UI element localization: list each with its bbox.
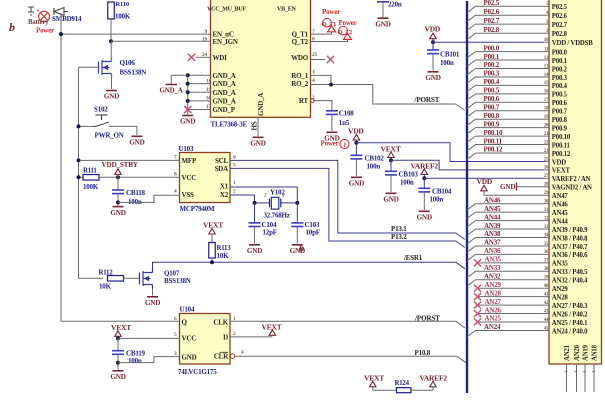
svg-text:7: 7 <box>174 155 177 161</box>
svg-text:P00.8: P00.8 <box>484 112 500 120</box>
svg-text:R111: R111 <box>83 168 97 175</box>
wire line A down to U104 Q <box>61 34 180 321</box>
svg-text:R113: R113 <box>217 245 232 252</box>
bus entry P00.1 <box>467 60 476 66</box>
svg-text:BSS138N: BSS138N <box>120 69 147 77</box>
bus entry P00.9 <box>467 128 476 134</box>
bus entry P00.0 <box>467 52 476 58</box>
bus entry P00.7 <box>467 111 476 117</box>
svg-text:VAGND2 / AN: VAGND2 / AN <box>552 185 592 192</box>
wire line B <box>79 67 104 278</box>
svg-text:P00.2: P00.2 <box>484 61 500 69</box>
svg-text:X1: X1 <box>220 183 229 191</box>
bus entry AN39 <box>467 229 476 235</box>
svg-text:AN37: AN37 <box>484 239 501 247</box>
svg-text:P00.11: P00.11 <box>552 142 571 149</box>
svg-text:Power: Power <box>36 27 54 35</box>
svg-text:37: 37 <box>544 259 549 264</box>
wire /ESR1 <box>153 262 456 269</box>
svg-text:GND: GND <box>182 354 197 362</box>
svg-text:HS: HS <box>251 121 259 130</box>
svg-text:39: 39 <box>544 276 549 281</box>
svg-text:40: 40 <box>544 284 549 289</box>
svg-text:AN32 / P40.4: AN32 / P40.4 <box>552 278 588 285</box>
svg-text:10pF: 10pF <box>306 228 320 236</box>
ground Q106 <box>106 90 117 92</box>
svg-text:CLR: CLR <box>214 352 229 360</box>
svg-text:25: 25 <box>544 157 549 162</box>
wire P00.10 <box>476 135 545 137</box>
svg-text:8: 8 <box>174 172 177 178</box>
wire MFP <box>79 159 180 161</box>
svg-text:/PORST: /PORST <box>414 314 440 322</box>
svg-text:2: 2 <box>264 193 267 199</box>
bus entry AN32 <box>467 280 476 286</box>
pin 35 AN37 / P40.7 <box>544 245 549 247</box>
svg-text:20: 20 <box>544 123 549 128</box>
wire VAREF2 to IC pin <box>424 177 544 179</box>
svg-text:CB118: CB118 <box>126 189 146 197</box>
pin 13 P00.2 <box>544 68 549 70</box>
svg-text:5: 5 <box>174 332 177 338</box>
wire AN46 <box>476 203 545 205</box>
bus entry AN24 <box>467 330 476 336</box>
svg-text:P00.5: P00.5 <box>552 92 568 99</box>
pin CLR bubble <box>230 354 235 359</box>
svg-text:1: 1 <box>343 143 346 149</box>
svg-text:AN33: AN33 <box>484 264 501 272</box>
svg-text:12: 12 <box>544 56 549 61</box>
ground GND_A ladder <box>187 111 189 115</box>
svg-text:27: 27 <box>544 174 549 179</box>
svg-text:GND_A: GND_A <box>213 98 236 106</box>
svg-text:13: 13 <box>544 64 549 69</box>
wire AN35 no-connect <box>478 262 545 264</box>
bus entry AN46 <box>467 204 476 210</box>
pin 45 AN24 / P40.0 <box>544 329 549 331</box>
svg-text:38: 38 <box>544 267 549 272</box>
svg-text:28: 28 <box>544 183 549 188</box>
pin 5 P02.5 <box>544 5 549 7</box>
svg-text:VSS: VSS <box>182 191 195 199</box>
bus entry /PORST bottom <box>456 321 465 328</box>
svg-text:AN37 / P40.7: AN37 / P40.7 <box>552 244 588 251</box>
svg-text:VEXT: VEXT <box>552 168 571 175</box>
wire P00.3 <box>476 76 545 78</box>
svg-text:Power: Power <box>322 8 340 16</box>
ground CB102 <box>351 176 362 178</box>
svg-text:42: 42 <box>544 301 549 306</box>
bus entry P00.12 <box>467 153 476 159</box>
svg-text:VDD: VDD <box>552 159 566 166</box>
svg-text:AN46: AN46 <box>484 196 501 204</box>
svg-text:GND_A: GND_A <box>257 93 265 116</box>
svg-text:P02.8: P02.8 <box>552 31 568 38</box>
wire P02.5 <box>476 5 545 7</box>
capacitor CB119 100n <box>117 338 119 350</box>
pin AN2x bottom stub 0 <box>566 364 568 392</box>
wire VDD to IC pin VDD <box>356 143 544 162</box>
wire P00.8 <box>476 118 545 120</box>
ground CB101 <box>428 71 439 73</box>
battery BT1 <box>28 7 34 15</box>
wire EN_uC net <box>61 13 211 34</box>
wire P00.5 <box>476 93 545 95</box>
wire P02.6 <box>476 14 545 16</box>
svg-text:GND: GND <box>104 93 119 101</box>
wire GND_A ladder <box>187 75 189 110</box>
pin 39 AN32 / P40.4 <box>544 279 549 281</box>
svg-text:GND_A: GND_A <box>213 72 236 80</box>
wire P00.1 <box>476 59 545 61</box>
pin 43 AN26 / P40.2 <box>544 313 549 315</box>
svg-text:VEXT: VEXT <box>111 323 131 332</box>
svg-text:41: 41 <box>544 292 549 297</box>
svg-text:GND_A: GND_A <box>213 80 236 88</box>
wire VDD to VDD/VDDSB pin <box>433 41 544 43</box>
pin 30 AN46 <box>544 203 549 205</box>
svg-text:100n: 100n <box>440 59 454 67</box>
svg-text:GND: GND <box>425 74 440 82</box>
wire SCL to P13.1 <box>230 160 456 233</box>
svg-text:CB104: CB104 <box>432 187 452 195</box>
svg-text:220n: 220n <box>388 1 402 9</box>
svg-text:VDD: VDD <box>425 25 441 34</box>
bus entry P02.7 <box>467 24 476 30</box>
wire S102 left <box>79 125 95 127</box>
svg-text:VEXT: VEXT <box>203 220 223 229</box>
svg-text:VCC_MU_BUF: VCC_MU_BUF <box>207 7 247 13</box>
bus entry P00.11 <box>467 145 476 151</box>
svg-text:VCC: VCC <box>182 334 197 342</box>
svg-text:10K: 10K <box>217 252 230 260</box>
pin AN2x bottom stub 3 <box>593 364 595 392</box>
svg-text:33: 33 <box>544 225 549 230</box>
svg-text:2: 2 <box>233 331 236 337</box>
bus entry AN38 <box>467 238 476 244</box>
ground Q107 <box>147 296 158 298</box>
svg-text:6: 6 <box>233 155 236 161</box>
svg-text:AN29: AN29 <box>552 286 569 293</box>
svg-text:R110: R110 <box>116 1 130 8</box>
wire Q106 source to ground <box>111 74 113 90</box>
svg-text:4: 4 <box>312 78 315 84</box>
wire P00.6 <box>476 101 545 103</box>
svg-text:P02.5: P02.5 <box>484 0 500 7</box>
wire AN24 <box>476 329 545 331</box>
wire CLR to P10.8 <box>235 355 457 357</box>
pin 22 P00.11 <box>544 144 549 146</box>
pin 25 VDD <box>544 160 549 162</box>
svg-text:RO_1: RO_1 <box>291 72 308 80</box>
svg-text:AN35: AN35 <box>485 256 502 264</box>
wire Q107 source to ground <box>152 289 154 296</box>
diode D1 SMBD914 <box>54 8 68 16</box>
svg-text:31: 31 <box>544 208 549 213</box>
svg-text:P00.7: P00.7 <box>484 103 500 111</box>
pin 38 AN33 / P40.5 <box>544 270 549 272</box>
svg-text:EN_IGN: EN_IGN <box>213 38 238 46</box>
resistor R110 100K <box>108 2 115 19</box>
pin 27 VAREF2 / AN <box>544 177 549 179</box>
svg-text:AN44: AN44 <box>484 213 501 221</box>
svg-text:CB101: CB101 <box>440 51 460 59</box>
wire P00.7 <box>476 110 545 112</box>
svg-text:U104: U104 <box>180 306 195 314</box>
svg-text:12pF: 12pF <box>263 228 277 236</box>
pin 16 P00.5 <box>544 93 549 95</box>
bus entry P00.2 <box>467 69 476 75</box>
pin 29 AN47 <box>544 194 549 196</box>
svg-text:30: 30 <box>544 200 549 205</box>
wire P00.11 <box>476 144 545 146</box>
svg-text:GND: GND <box>110 209 125 217</box>
no-ERC cross AN29 <box>474 285 481 292</box>
svg-text:P00.2: P00.2 <box>552 66 568 73</box>
bus entry P00.8 <box>467 119 476 125</box>
bus entry P00.5 <box>467 94 476 100</box>
svg-text:P00.3: P00.3 <box>552 75 568 82</box>
capacitor C? 220n <box>382 0 384 2</box>
svg-text:AN24: AN24 <box>484 323 501 331</box>
svg-text:P00.4: P00.4 <box>552 83 568 90</box>
pin 28 VAGND2 / AN <box>544 186 549 188</box>
pin 17 P00.6 <box>544 101 549 103</box>
svg-text:GND_A: GND_A <box>213 89 236 97</box>
svg-text:GND: GND <box>349 180 364 188</box>
svg-text:32: 32 <box>544 216 549 221</box>
svg-text:4: 4 <box>174 189 177 195</box>
svg-text:GND: GND <box>417 214 432 222</box>
pin 20 P00.9 <box>544 127 549 129</box>
svg-text:AN46: AN46 <box>552 202 569 209</box>
svg-text:100n: 100n <box>400 178 414 186</box>
pin 18 P00.7 <box>544 110 549 112</box>
bus entry /PORST <box>456 104 465 111</box>
ground S102 <box>131 135 142 137</box>
no-ERC cross on GND_P <box>184 106 191 113</box>
pin WDO stub with no-ERC <box>311 59 326 61</box>
wire EN_IGN net <box>111 40 211 42</box>
svg-text:34: 34 <box>544 233 549 238</box>
svg-text:P00.6: P00.6 <box>552 100 568 107</box>
svg-text:R124: R124 <box>395 380 410 387</box>
power port circle Battery <box>39 11 50 22</box>
svg-text:P00.3: P00.3 <box>484 70 500 78</box>
no-ERC cross AN35 <box>474 259 481 266</box>
svg-text:AN45: AN45 <box>552 210 569 217</box>
svg-text:45: 45 <box>544 326 549 331</box>
bus entry P00.10 <box>467 136 476 142</box>
wire AN39 <box>476 228 545 230</box>
svg-text:b: b <box>9 20 15 34</box>
svg-text:15: 15 <box>544 81 549 86</box>
svg-text:Power: Power <box>339 19 357 27</box>
bus entry P02.5 <box>467 6 476 12</box>
pin 3 P02.7 <box>544 23 549 25</box>
svg-text:Q_T2: Q_T2 <box>292 38 309 46</box>
svg-text:AN20: AN20 <box>574 344 581 361</box>
svg-text:22: 22 <box>544 140 549 145</box>
svg-text:1: 1 <box>233 180 236 186</box>
svg-text:100n: 100n <box>430 195 444 203</box>
bus entry AN37 <box>467 246 476 252</box>
svg-text:S102: S102 <box>94 106 108 114</box>
bus entry P02.8 <box>467 33 476 39</box>
wire AN38 <box>476 237 545 239</box>
pin 10 VDD / VDDSB <box>544 41 549 43</box>
svg-text:AN39 / P40.9: AN39 / P40.9 <box>552 227 588 234</box>
ground 220n <box>378 17 389 19</box>
svg-text:GND_A: GND_A <box>160 87 183 95</box>
svg-text:P02.6: P02.6 <box>552 13 568 20</box>
svg-text:AN26 / P40.2: AN26 / P40.2 <box>552 311 588 318</box>
svg-text:AN19: AN19 <box>583 344 590 361</box>
svg-text:2: 2 <box>233 189 236 195</box>
svg-text:P00.11: P00.11 <box>484 137 503 145</box>
wire R111 to VCC <box>99 176 180 178</box>
svg-text:P00.10: P00.10 <box>552 134 571 141</box>
svg-text:X2: X2 <box>220 191 229 199</box>
wire RT to C108 <box>311 99 315 103</box>
bus vertical <box>466 1 468 393</box>
svg-text:P00.9: P00.9 <box>484 120 500 128</box>
svg-text:P00.7: P00.7 <box>552 109 568 116</box>
wire P00.4 <box>476 84 545 86</box>
pin 36 AN36 / P40.6 <box>544 253 549 255</box>
wire Q106 drain <box>110 41 112 57</box>
svg-text:BSS138N: BSS138N <box>164 277 191 285</box>
ground CB104 <box>419 210 430 212</box>
wire VSS to ground node <box>118 195 180 202</box>
capacitor CB104 100n <box>423 178 425 188</box>
pin AN2x bottom stub 2 <box>584 364 586 392</box>
svg-text:AN44: AN44 <box>552 218 569 225</box>
svg-text:MFP: MFP <box>182 157 197 165</box>
svg-text:U103: U103 <box>179 145 194 153</box>
capacitor CB102 100n <box>355 143 357 156</box>
svg-text:PWR_ON: PWR_ON <box>95 132 124 140</box>
svg-text:10: 10 <box>202 36 208 42</box>
svg-text:P00.10: P00.10 <box>484 129 504 137</box>
svg-text:VB_EN: VB_EN <box>277 7 297 13</box>
svg-text:AN38: AN38 <box>484 230 501 238</box>
svg-text:P00.4: P00.4 <box>484 78 500 86</box>
svg-text:P00.0: P00.0 <box>484 44 500 52</box>
svg-text:AN45: AN45 <box>484 205 501 213</box>
ground CB119 <box>113 370 124 372</box>
svg-text:P10.8: P10.8 <box>415 349 431 357</box>
svg-text:AN28: AN28 <box>552 294 569 301</box>
wire P02.8 <box>476 32 545 34</box>
svg-text:RO_2: RO_2 <box>291 80 308 88</box>
svg-text:19: 19 <box>544 115 549 120</box>
pin 40 AN29 <box>544 287 549 289</box>
no-ERC cross AN27 <box>474 302 481 309</box>
svg-text:RT: RT <box>299 97 309 105</box>
svg-text:100K: 100K <box>115 13 131 21</box>
svg-text:VAREF2: VAREF2 <box>420 373 448 382</box>
svg-text:25: 25 <box>312 52 318 58</box>
svg-text:P00.12: P00.12 <box>552 151 571 158</box>
svg-text:WDO: WDO <box>291 54 309 62</box>
svg-text:3: 3 <box>174 351 177 357</box>
svg-text:GND: GND <box>247 247 262 255</box>
pin 26 VEXT <box>544 169 549 171</box>
svg-text:AN27: AN27 <box>485 298 502 306</box>
svg-text:P00.9: P00.9 <box>552 125 568 132</box>
bus entry P00.6 <box>467 102 476 108</box>
pin WDI stub with no-ERC <box>196 56 211 58</box>
ground C104 <box>249 244 260 246</box>
svg-text:P00.1: P00.1 <box>552 58 568 65</box>
ground CB118 <box>113 206 124 208</box>
wire X2 <box>230 195 255 203</box>
pin 12 P00.1 <box>544 59 549 61</box>
svg-text:GND: GND <box>145 299 160 307</box>
wire VEXT to VCC <box>118 337 180 339</box>
wire R110 to EN_IGN net <box>110 19 112 41</box>
svg-text:35: 35 <box>544 242 549 247</box>
svg-text:14: 14 <box>544 73 549 78</box>
svg-text:29: 29 <box>544 191 549 196</box>
op-amp U102 TLE7368-3E body <box>211 0 311 117</box>
pin 44 AN25 / P40.1 <box>544 321 549 323</box>
wire X1 <box>230 187 297 203</box>
wire P02.7 <box>476 23 545 25</box>
svg-text:VCC: VCC <box>182 174 197 182</box>
transistor Q107 <box>140 269 153 289</box>
svg-text:100K: 100K <box>83 183 99 191</box>
transistor Q106 <box>99 58 112 78</box>
svg-text:CLK: CLK <box>213 318 228 326</box>
svg-text:AN39: AN39 <box>484 222 501 230</box>
svg-text:3: 3 <box>312 70 315 76</box>
svg-text:AN27 / P40.3: AN27 / P40.3 <box>552 303 588 310</box>
svg-text:P00.5: P00.5 <box>484 87 500 95</box>
wire AN36 <box>476 253 545 255</box>
svg-text:GND: GND <box>129 139 144 147</box>
svg-text:P02.7: P02.7 <box>484 17 500 25</box>
ground C108 <box>326 131 337 133</box>
svg-text:AN33 / P40.5: AN33 / P40.5 <box>552 269 588 276</box>
wire U104 GND pin <box>118 357 180 363</box>
svg-text:P02.6: P02.6 <box>484 8 500 16</box>
wire AN25 no-connect <box>478 321 545 323</box>
svg-text:44: 44 <box>544 318 549 323</box>
svg-text:1: 1 <box>282 193 285 199</box>
svg-text:TLE7368-3E: TLE7368-3E <box>211 121 248 129</box>
svg-text:VAREF2 / AN: VAREF2 / AN <box>552 176 591 183</box>
no-ERC cross AN28 <box>474 293 481 300</box>
svg-text:C108: C108 <box>339 110 354 118</box>
svg-text:AN36 / P40.6: AN36 / P40.6 <box>552 252 588 259</box>
resistor R113 10K <box>211 234 213 243</box>
no-ERC cross AN26 <box>474 310 481 317</box>
wire AN33 <box>476 270 545 272</box>
svg-text:36: 36 <box>544 250 549 255</box>
svg-text:Q106: Q106 <box>120 59 136 67</box>
svg-text:10: 10 <box>544 38 549 43</box>
wire P00.0 <box>476 51 545 53</box>
bus entry P00.4 <box>467 85 476 91</box>
svg-text:AN18: AN18 <box>592 344 599 361</box>
svg-text:GND: GND <box>500 183 515 191</box>
svg-text:AN29: AN29 <box>485 281 502 289</box>
ground C103 <box>292 244 303 246</box>
svg-text:CB103: CB103 <box>399 170 419 178</box>
wire RO_1 <box>311 75 332 84</box>
